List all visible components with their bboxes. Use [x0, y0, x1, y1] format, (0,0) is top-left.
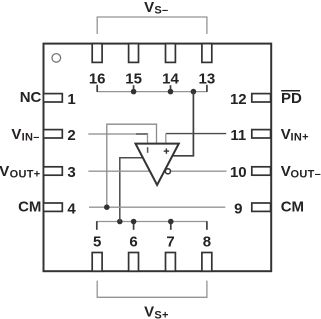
net VS+ label bottom	[144, 304, 169, 319]
svg-text:CM: CM	[281, 199, 304, 216]
VS- bracket wire top	[97, 17, 207, 34]
pin 6 pad	[129, 234, 139, 272]
svg-text:V: V	[281, 163, 291, 180]
pin 1 pad	[44, 91, 76, 108]
inverting input tick	[147, 147, 149, 153]
svg-text:7: 7	[166, 234, 174, 251]
svg-text:3: 3	[67, 164, 75, 181]
package outline U1 QFN-16	[44, 44, 272, 272]
label CM pin 4	[18, 199, 41, 216]
svg-text:10: 10	[230, 164, 247, 181]
bottom bus stub to pin 8	[206, 221, 208, 230]
bottom bus stub to pin 7	[170, 222, 172, 230]
svg-text:NC: NC	[20, 89, 42, 106]
svg-text:V: V	[144, 0, 154, 16]
junction dot pin 15	[131, 89, 137, 95]
wire VOUT+ pin 3 to amplifier output	[88, 170, 151, 172]
svg-text:OUT+: OUT+	[10, 169, 41, 181]
svg-text:14: 14	[162, 70, 179, 87]
svg-text:4: 4	[67, 200, 76, 217]
pin 3 pad	[44, 164, 76, 181]
svg-text:8: 8	[203, 234, 211, 251]
top bus stub to pin 14	[170, 85, 172, 91]
pin 11 pad	[230, 127, 270, 144]
svg-text:IN–: IN–	[22, 132, 40, 144]
wire CM pin 4 to pin 9	[89, 206, 225, 208]
svg-text:CM: CM	[18, 199, 41, 216]
svg-text:11: 11	[230, 127, 246, 144]
svg-text:V: V	[144, 304, 154, 319]
label NC pin 1	[20, 89, 42, 106]
junction dot pin 14	[168, 89, 174, 95]
pin 5 pad	[92, 234, 102, 272]
junction dot CM net	[104, 204, 110, 210]
pin 12 pad	[230, 91, 271, 108]
label VIN+ pin 11	[281, 126, 309, 144]
pin 14 pad	[162, 44, 179, 88]
svg-text:16: 16	[89, 70, 106, 87]
top bus stub to pin 13	[206, 85, 208, 92]
svg-text:1: 1	[67, 91, 75, 108]
top bus stub to pin 16	[96, 85, 98, 92]
svg-text:2: 2	[67, 127, 75, 144]
wire VOUT- pin 10 to inverted output	[171, 170, 227, 172]
VS+ bracket wire bottom	[97, 281, 207, 298]
pin 7 pad	[166, 234, 176, 272]
label VOUT+ pin 3	[0, 163, 40, 181]
top bus stub to pin 15	[133, 85, 135, 91]
junction dot pin 7	[168, 219, 174, 225]
svg-text:12: 12	[230, 91, 247, 108]
svg-text:9: 9	[234, 200, 242, 217]
svg-text:V: V	[281, 126, 291, 143]
pin 2 pad	[44, 127, 76, 144]
op-amp U1 triangle	[136, 144, 179, 185]
junction dot VS- feed	[191, 89, 197, 95]
svg-text:15: 15	[125, 70, 142, 87]
bottom bus stub to pin 5	[96, 221, 98, 230]
bottom bus stub to pin 6	[133, 222, 135, 230]
svg-text:S+: S+	[154, 309, 168, 319]
non-inverting input plus	[164, 148, 169, 153]
pin 13 pad	[199, 44, 216, 88]
svg-text:PD: PD	[281, 90, 302, 107]
label PD (active low) pin 12	[281, 90, 302, 107]
junction dot VS+ feed	[117, 219, 123, 225]
wire VOCM to CM net	[107, 124, 157, 207]
label VIN- pin 2	[11, 126, 39, 144]
svg-text:6: 6	[129, 234, 137, 251]
svg-text:S–: S–	[154, 5, 168, 17]
wire VIN+ pin 11 to non-inverting input	[166, 133, 226, 135]
pin 4 pad	[44, 200, 77, 217]
top supply bus wire	[97, 91, 207, 93]
pin 10 pad	[230, 164, 271, 181]
wire VIN- pin 2 to inverting input	[88, 133, 147, 135]
pin 15 pad	[125, 44, 142, 88]
svg-text:IN+: IN+	[291, 132, 309, 144]
pin-1 indicator dot	[52, 54, 61, 63]
label CM pin 9	[281, 199, 304, 216]
svg-text:V: V	[0, 163, 9, 180]
junction dot pin 6	[131, 219, 137, 225]
VS+ feed wire to amplifier	[120, 158, 145, 222]
pin 9 pad	[234, 200, 270, 217]
svg-text:5: 5	[93, 234, 101, 251]
output inversion bubble	[165, 169, 170, 174]
svg-text:13: 13	[199, 70, 216, 87]
pin 16 pad	[89, 44, 106, 88]
net VS- label top	[144, 0, 168, 17]
label VOUT- pin 10	[281, 163, 321, 181]
VS- feed wire to amplifier	[173, 92, 194, 156]
svg-text:V: V	[11, 126, 21, 143]
bottom supply bus wire	[97, 221, 207, 223]
pin 8 pad	[202, 234, 212, 272]
svg-text:OUT–: OUT–	[291, 169, 321, 181]
